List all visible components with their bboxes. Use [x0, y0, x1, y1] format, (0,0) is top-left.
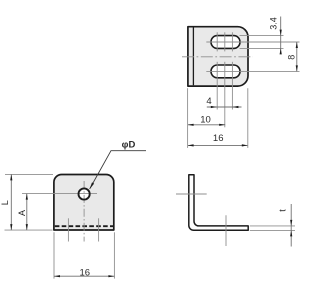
- dim t extension lines: [250, 225, 295, 227]
- slot centre line left (in front view): [67, 218, 69, 241]
- dimension 10 line: [188, 124, 226, 126]
- dim L/A extension bottom: [5, 229, 53, 231]
- hole phi D fill: [79, 188, 90, 199]
- dimension 8 line: [296, 42, 298, 71]
- extension line left (10 &amp; 16): [187, 88, 189, 148]
- slot axis centre line (side view): [225, 215, 227, 246]
- slot S2 (lower obround): [211, 65, 240, 78]
- dimension 3.4 line: [280, 17, 282, 54]
- dimension 16 line (top view): [188, 144, 248, 146]
- main centre line (dash-dot): [182, 56, 253, 58]
- bracket plate body (plan view): [188, 27, 248, 86]
- svg-text:16: 16: [80, 268, 91, 279]
- svg-text:A: A: [17, 210, 27, 216]
- extension lines for dim 3.4 (slot width): [240, 35, 284, 37]
- hole centre line vertical (dash-dot): [83, 181, 85, 242]
- extension line right (16): [247, 88, 249, 148]
- slot centre line right (in front view): [98, 218, 100, 241]
- slot S2 centre cross lines: [206, 70, 244, 72]
- dimension A line: [26, 194, 28, 231]
- bend tangent line (flange edge seen from above): [192, 28, 194, 86]
- dim L extension top: [5, 173, 53, 175]
- hole phi D outline: [79, 188, 90, 199]
- dimension 16 line (front): [54, 275, 114, 277]
- hole axis centre line (side view): [176, 193, 207, 195]
- hole centre line horizontal: [22, 193, 97, 195]
- slot S1 (upper obround): [211, 36, 240, 49]
- bracket front body: [54, 175, 114, 231]
- svg-text:8: 8: [287, 55, 297, 60]
- svg-text:L: L: [0, 200, 10, 205]
- slot S1 centre cross lines: [206, 41, 244, 43]
- dimension L line: [10, 174, 12, 230]
- svg-text:16: 16: [213, 133, 224, 144]
- bend line (thick dashed): [55, 225, 113, 227]
- L profile: [189, 175, 248, 231]
- svg-text:4: 4: [206, 96, 211, 107]
- leader line for phi D: [90, 151, 146, 189]
- svg-text:t: t: [278, 209, 288, 212]
- extension lines for dim 8 (slot pitch): [245, 41, 300, 43]
- svg-text:3.4: 3.4: [269, 17, 279, 30]
- leader arrowhead: [90, 182, 95, 189]
- dimension t line: [290, 204, 292, 247]
- dimension 4 line: [207, 106, 242, 108]
- dim 16 extension lines (front): [53, 232, 55, 278]
- svg-text:φD: φD: [122, 139, 136, 150]
- svg-text:10: 10: [200, 114, 211, 125]
